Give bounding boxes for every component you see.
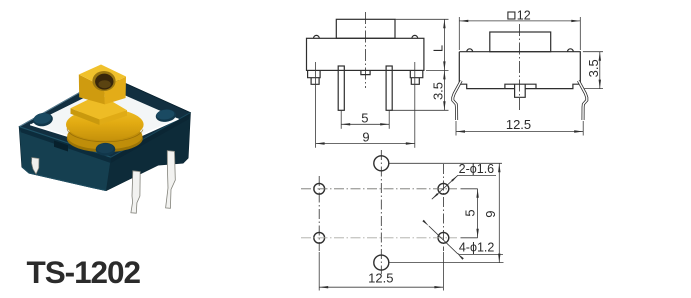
side center line bbox=[519, 24, 521, 110]
dim 12 extensions bbox=[458, 17, 460, 50]
body bottom extension bbox=[426, 69, 449, 71]
hole small left-top bbox=[314, 183, 325, 194]
top face rim (navy frame) bbox=[19, 76, 190, 157]
dim 12 line bbox=[459, 20, 580, 22]
leader 2-phi1.6 bbox=[432, 175, 496, 199]
collar tier top bbox=[71, 94, 128, 120]
svg-text:TS-1202: TS-1202 bbox=[27, 254, 141, 290]
3.5 dim line bbox=[599, 52, 601, 89]
under-rim shadow left bbox=[19, 127, 111, 163]
12.5 dim line bbox=[456, 131, 583, 133]
left foot bbox=[308, 70, 321, 77]
extension big circles right bbox=[390, 162, 503, 164]
9 dim line bbox=[498, 163, 500, 262]
hole big top bbox=[374, 156, 389, 171]
dim 5 extension lines bbox=[340, 111, 342, 129]
slot on front-left face bbox=[54, 141, 68, 152]
arrows front bbox=[316, 19, 446, 144]
center bottom notch bbox=[361, 70, 370, 74]
12.5 extensions bbox=[318, 252, 320, 291]
L + 3.5 dim vertical line bbox=[443, 19, 445, 110]
metal top plate (white) bbox=[30, 87, 178, 149]
yellow dome base bbox=[67, 125, 143, 153]
pin right bbox=[166, 151, 176, 209]
5 shelf extensions bbox=[461, 188, 478, 190]
dim 9 line bbox=[316, 143, 415, 145]
collar front-right face bbox=[100, 110, 128, 125]
arrows footprint bbox=[319, 163, 500, 288]
right foot bbox=[410, 70, 423, 77]
dim 5 line bbox=[341, 123, 389, 125]
stem top face bbox=[79, 65, 126, 88]
svg-text:9: 9 bbox=[483, 210, 498, 217]
dim 9 extension lines bbox=[315, 62, 317, 148]
5 dim line bbox=[477, 189, 479, 238]
svg-text:5: 5 bbox=[361, 110, 368, 125]
collar front-left face bbox=[71, 108, 100, 125]
rivet left bbox=[32, 112, 54, 128]
bottom boss bbox=[505, 84, 536, 88]
svg-text:3.5: 3.5 bbox=[586, 59, 601, 77]
svg-text:5: 5 bbox=[463, 209, 478, 216]
pin back-left bbox=[32, 158, 40, 175]
leader 4-phi1.2 bbox=[429, 226, 503, 254]
body front-left face bbox=[19, 127, 111, 191]
arrows side bbox=[456, 20, 601, 133]
button bbox=[490, 32, 551, 52]
front center line bbox=[364, 12, 366, 88]
under-rim shadow right bbox=[111, 113, 191, 163]
svg-text:L: L bbox=[431, 45, 446, 52]
svg-text:12.5: 12.5 bbox=[368, 270, 393, 285]
ears bbox=[314, 35, 320, 38]
rivet bottom (overlaps dome) bbox=[96, 143, 116, 156]
pin whites bbox=[453, 81, 461, 120]
12.5 dim line bbox=[319, 286, 443, 288]
hole small left-bottom bbox=[314, 232, 325, 243]
switch body silhouette bbox=[19, 76, 190, 191]
svg-text:12: 12 bbox=[517, 8, 531, 22]
stem hole bbox=[92, 71, 115, 91]
right gull-wing pin bbox=[578, 81, 586, 120]
pin front bbox=[131, 171, 140, 213]
ears bbox=[467, 49, 473, 52]
right pin bbox=[386, 66, 392, 110]
button bbox=[336, 19, 395, 38]
3.5 extensions right bbox=[583, 51, 603, 53]
svg-text:12.5: 12.5 bbox=[506, 117, 531, 132]
12.5 extensions bbox=[455, 121, 457, 136]
svg-text:4-ϕ1.2: 4-ϕ1.2 bbox=[459, 240, 495, 254]
left pin bbox=[338, 66, 344, 110]
svg-text:9: 9 bbox=[362, 130, 369, 145]
body outline with bottom steps bbox=[459, 52, 580, 89]
hole small right-top bbox=[438, 183, 449, 194]
body right face bbox=[106, 113, 190, 191]
pin bottom extension bbox=[391, 109, 449, 111]
bottom edge highlight bbox=[22, 167, 106, 191]
rim edge highlights bbox=[19, 76, 109, 127]
svg-text:2-ϕ1.6: 2-ϕ1.6 bbox=[459, 162, 495, 176]
left gull-wing pin bbox=[453, 81, 461, 120]
rivet right bbox=[155, 108, 177, 123]
hole small right-bottom bbox=[438, 232, 449, 243]
L extension top bbox=[395, 18, 449, 20]
body bbox=[307, 38, 424, 70]
hole big bottom bbox=[374, 255, 389, 270]
svg-text:3.5: 3.5 bbox=[430, 82, 445, 100]
stem right face bbox=[104, 77, 126, 105]
dim texts side bbox=[508, 12, 515, 19]
center lines bbox=[301, 150, 457, 274]
stem left face bbox=[79, 75, 105, 105]
